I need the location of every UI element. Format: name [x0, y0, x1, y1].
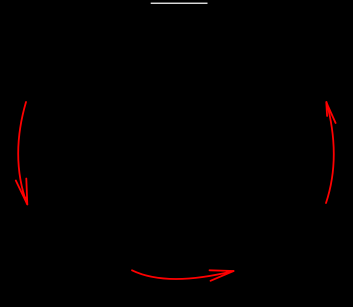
white top line: [151, 3, 208, 4]
left cycle arrow (pointing down): [16, 102, 27, 204]
right cycle arrow (pointing up): [326, 102, 336, 203]
bottom cycle arrow (pointing right): [132, 270, 234, 281]
